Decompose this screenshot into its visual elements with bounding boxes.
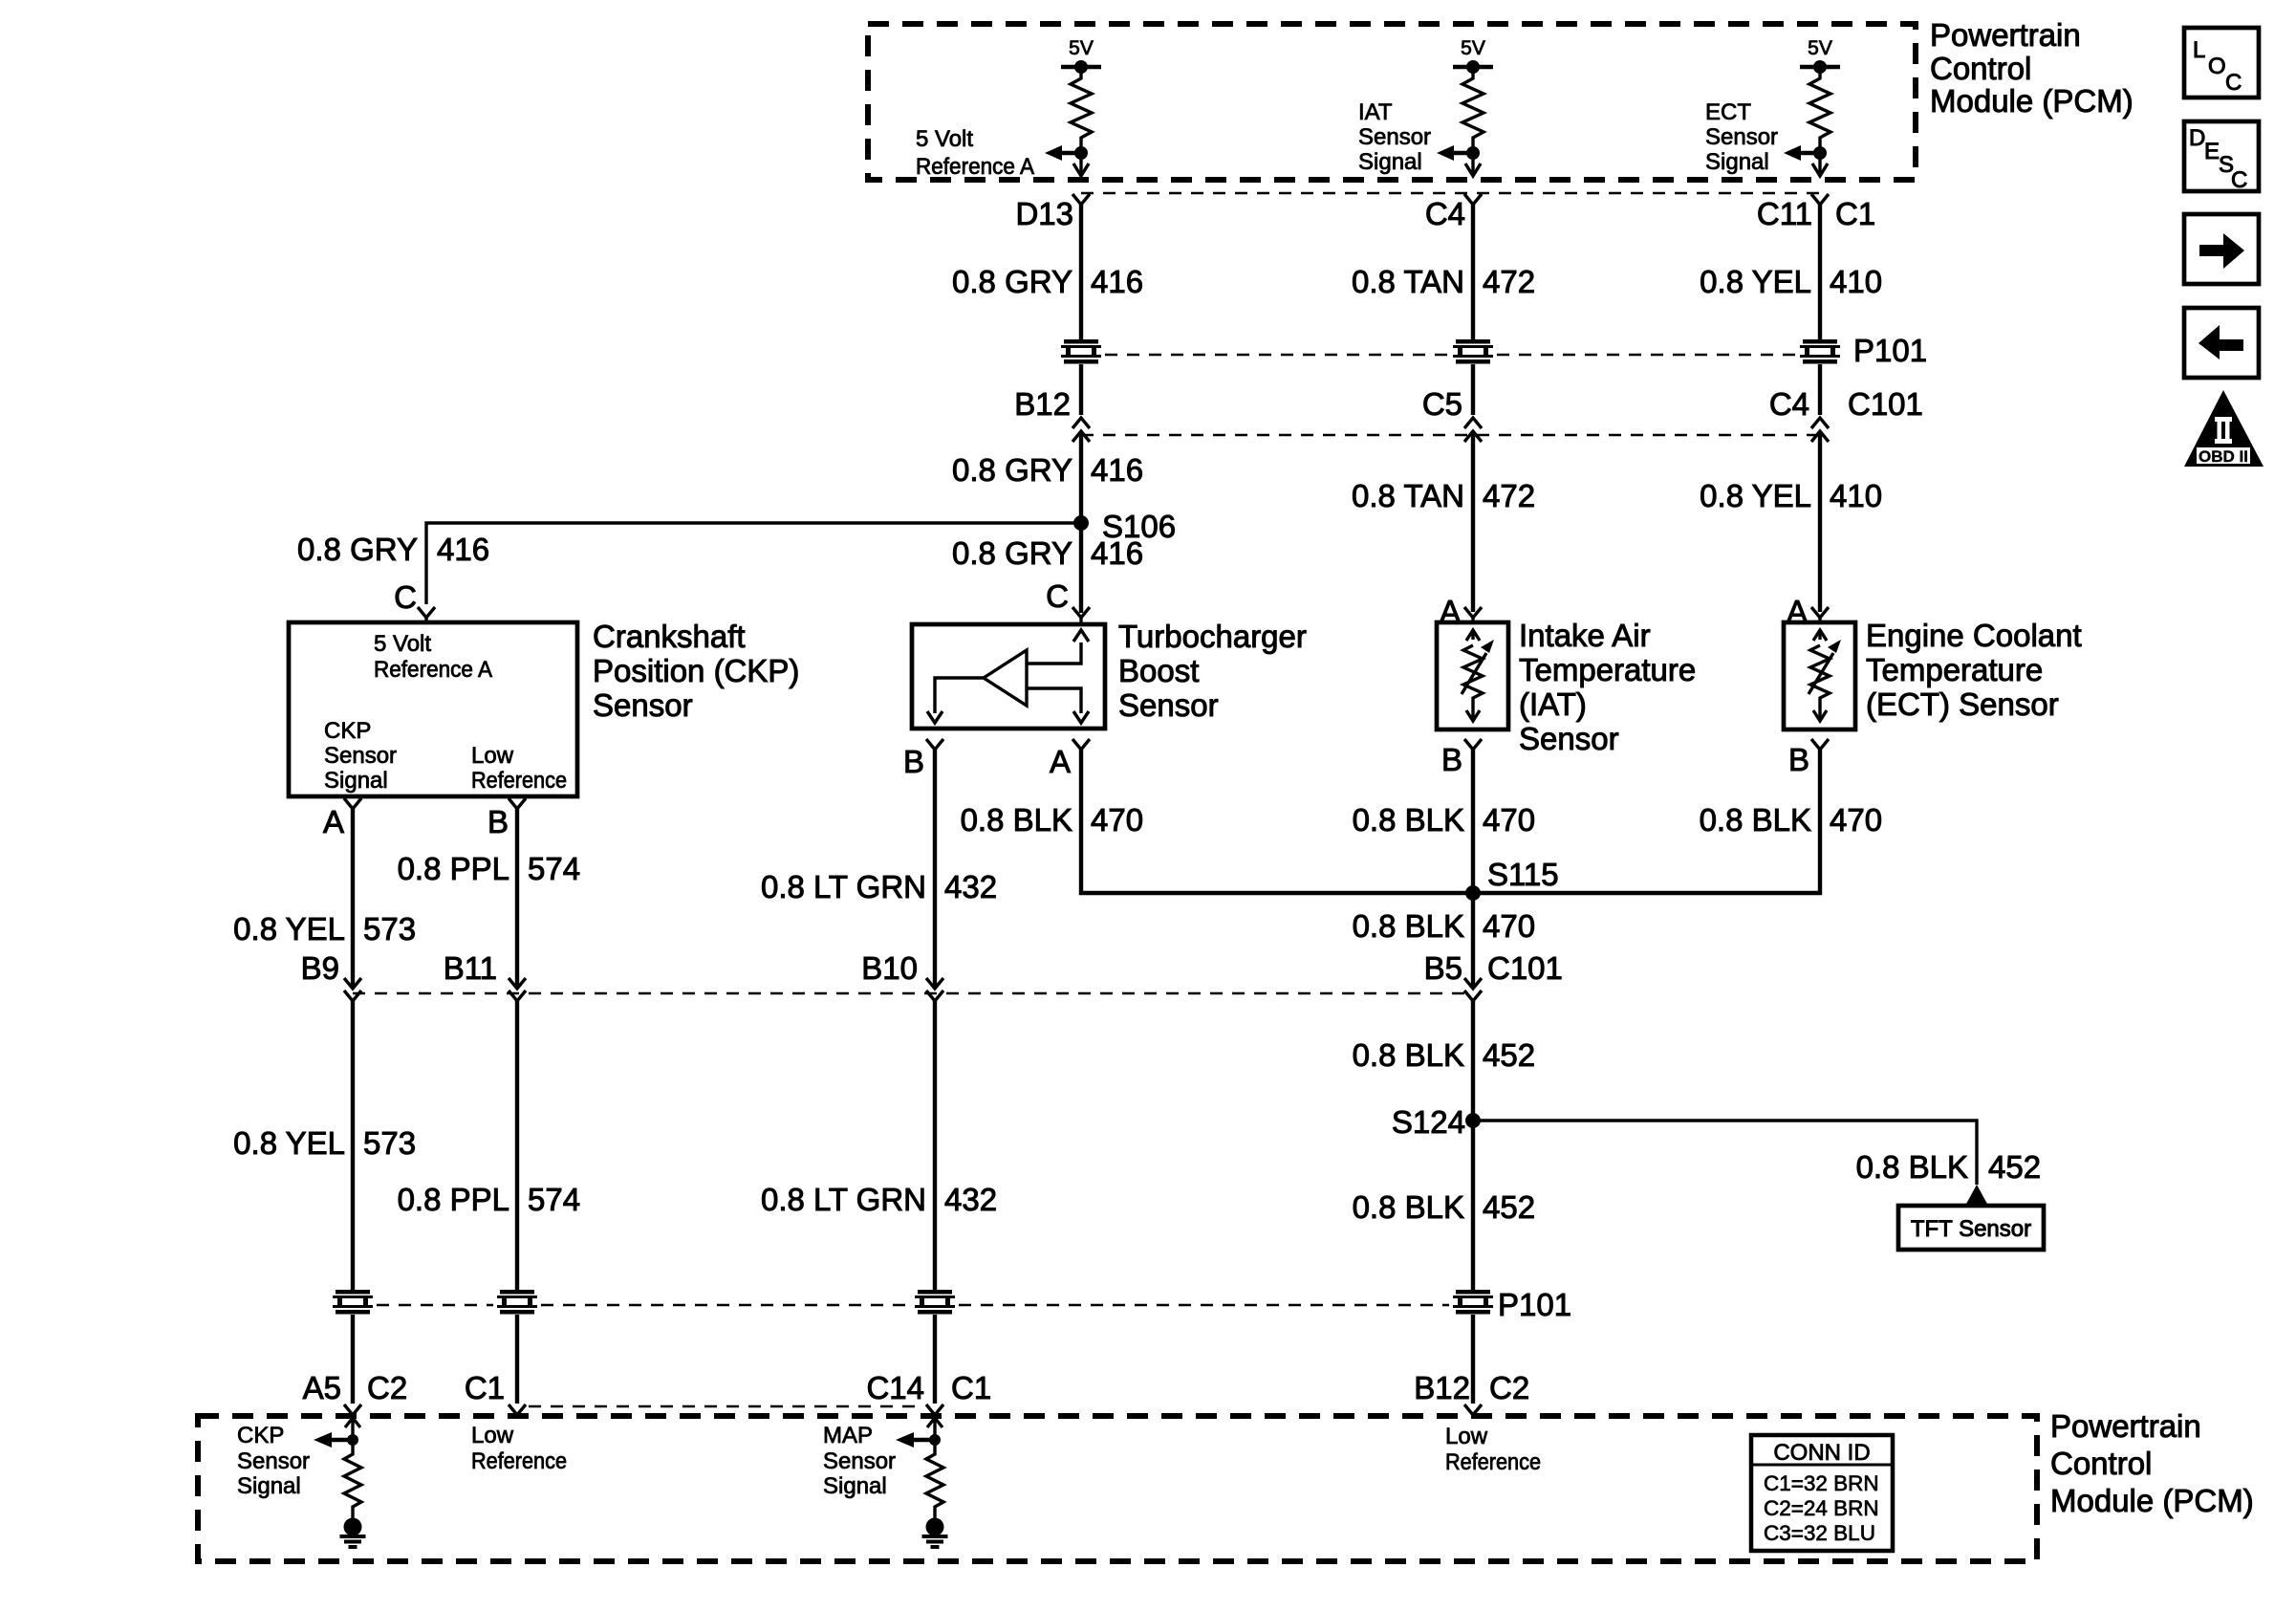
svg-text:ECT: ECT xyxy=(1705,99,1751,125)
svg-text:B: B xyxy=(1441,742,1462,777)
connector C101 chevrons (B5) xyxy=(1464,978,1482,989)
PCM module box (top, dashed) xyxy=(868,24,1916,180)
wire 0.8 GRY 416 (S106 to turbo C pin) xyxy=(1079,523,1083,613)
svg-text:S115: S115 xyxy=(1487,857,1559,892)
svg-text:B12: B12 xyxy=(1014,386,1071,422)
wire 0.8 BLK 470 (S115 to B5) xyxy=(1471,893,1475,988)
value label 0.8 BLK 452 (S124 to P101) xyxy=(1353,1189,1535,1225)
wire 0.8 LT GRN 432 (B10 to P101) xyxy=(933,1001,937,1290)
svg-text:0.8 YEL: 0.8 YEL xyxy=(1700,478,1811,513)
svg-text:C: C xyxy=(1046,578,1069,614)
svg-text:Sensor: Sensor xyxy=(1358,124,1431,150)
svg-text:C: C xyxy=(2231,167,2247,193)
svg-text:B10: B10 xyxy=(861,950,918,986)
svg-text:410: 410 xyxy=(1830,478,1882,513)
connector P101 pass-through (BLK wire) xyxy=(1453,1290,1493,1315)
svg-text:C14: C14 xyxy=(866,1370,924,1405)
svg-text:C4: C4 xyxy=(1425,196,1465,231)
wire 0.8 YEL 573 (B9 to P101) xyxy=(351,1001,355,1290)
svg-text:Engine Coolant: Engine Coolant xyxy=(1866,618,2082,653)
svg-text:A: A xyxy=(1050,744,1071,779)
value label 0.8 YEL 410 (second) xyxy=(1700,478,1882,513)
connector C101 chevrons (B11) xyxy=(509,978,526,989)
value label 0.8 GRY 416 (second) xyxy=(952,452,1143,488)
svg-text:Intake Air: Intake Air xyxy=(1519,618,1651,653)
sidebar icon: LOC box xyxy=(2184,28,2259,98)
svg-text:5 Volt: 5 Volt xyxy=(374,631,431,657)
pin chevron B (ECT sensor) xyxy=(1811,739,1829,750)
resistor R1 (PCM 5V pull-up, 5 Volt Reference A) xyxy=(1045,60,1101,176)
P101 connector dashed tie-line (lower) xyxy=(377,1304,1449,1307)
svg-text:Signal: Signal xyxy=(1705,149,1769,175)
svg-text:0.8 GRY: 0.8 GRY xyxy=(952,535,1072,571)
pin chevron C (turbo boost sensor) xyxy=(1072,607,1090,618)
svg-text:574: 574 xyxy=(528,851,580,886)
svg-text:Low: Low xyxy=(471,743,514,769)
svg-text:C1: C1 xyxy=(951,1370,991,1405)
value label 0.8 BLK 452 (B5 to S124) xyxy=(1353,1037,1535,1073)
label: ECT Sensor Signal xyxy=(1705,99,1778,175)
svg-text:470: 470 xyxy=(1091,802,1143,838)
svg-text:Signal: Signal xyxy=(823,1473,887,1499)
svg-text:C2=24 BRN: C2=24 BRN xyxy=(1764,1496,1879,1520)
value label 0.8 PPL 574 (lower) xyxy=(398,1182,580,1217)
svg-text:470: 470 xyxy=(1483,802,1535,838)
pin chevron B12 (lower) xyxy=(1464,1404,1482,1415)
wire 0.8 YEL 573 (P101 to PCM A5) xyxy=(351,1315,355,1404)
svg-text:C: C xyxy=(2225,70,2242,96)
IAT sensor box xyxy=(1437,622,1508,729)
sidebar icon: forward arrow box xyxy=(2184,214,2259,284)
sidebar icon: back arrow box xyxy=(2184,308,2259,378)
wire 0.8 TAN 472 (C4 to P101) xyxy=(1471,205,1475,339)
svg-text:0.8 BLK: 0.8 BLK xyxy=(1353,1037,1464,1073)
TFT sensor box xyxy=(1898,1206,2044,1250)
ECT sensor box xyxy=(1784,622,1855,729)
pin chevron A (ECT sensor) xyxy=(1811,607,1829,618)
svg-text:B11: B11 xyxy=(444,950,497,986)
CKP box internal label: 5 Volt Reference A xyxy=(374,631,492,683)
wire 0.8 BLK 452 (S124 to P101) xyxy=(1471,1121,1475,1290)
svg-text:Control: Control xyxy=(2050,1446,2152,1481)
svg-text:C1: C1 xyxy=(1835,196,1875,231)
svg-text:0.8 BLK: 0.8 BLK xyxy=(1353,1189,1464,1225)
svg-text:0.8 YEL: 0.8 YEL xyxy=(233,1125,345,1161)
wire 0.8 YEL 410 (P101 to C101) xyxy=(1818,364,1822,415)
svg-text:CKP: CKP xyxy=(237,1423,284,1448)
connector C101 chevrons (GRY wire) xyxy=(1072,418,1090,428)
svg-text:O: O xyxy=(2208,54,2226,79)
pin chevron C14 xyxy=(926,1404,943,1415)
CKP box internal label: Low Reference xyxy=(471,743,567,794)
pin chevron A (turbo sensor) xyxy=(1072,739,1090,750)
turbo sensor internal symbol (amplifier triangle with arrows) xyxy=(927,630,1089,723)
wire 0.8 TAN 472 (P101 to C101) xyxy=(1471,364,1475,415)
wire 0.8 TAN 472 (C101 to IAT sensor) xyxy=(1471,431,1475,612)
resistor R3 (PCM 5V pull-up, ECT) xyxy=(1784,60,1840,176)
connector P101 pass-through (TAN wire) xyxy=(1453,339,1493,364)
MAP signal node dot xyxy=(929,1434,941,1446)
connector P101 pass-through (YEL wire) xyxy=(1800,339,1840,364)
connector C101 chevrons (B10) xyxy=(926,978,943,989)
svg-text:Sensor: Sensor xyxy=(593,687,693,723)
sidebar icon: OBD II triangle xyxy=(2184,390,2264,467)
label: Powertrain Control Module (PCM) bottom xyxy=(2050,1408,2254,1518)
label: Intake Air Temperature (IAT) Sensor xyxy=(1519,618,1696,756)
svg-text:C101: C101 xyxy=(1487,950,1563,986)
pin C4 connector chevron xyxy=(1464,194,1482,205)
CKP sensor box xyxy=(289,622,577,796)
svg-text:0.8 YEL: 0.8 YEL xyxy=(233,911,345,947)
wire 0.8 GRY 416 (S106 branch to CKP sensor) xyxy=(426,523,1081,604)
connector P101 pass-through (PPL wire) xyxy=(497,1290,537,1315)
svg-text:452: 452 xyxy=(1988,1149,2041,1185)
svg-text:416: 416 xyxy=(437,532,489,567)
svg-text:C: C xyxy=(394,579,417,615)
svg-text:5 Volt: 5 Volt xyxy=(916,126,973,152)
label: CKP Sensor Signal (PCM internal) xyxy=(237,1423,310,1499)
svg-text:C11: C11 xyxy=(1757,196,1812,231)
svg-text:Powertrain: Powertrain xyxy=(2050,1408,2201,1444)
splice S115 xyxy=(1465,885,1481,901)
svg-text:Reference A: Reference A xyxy=(374,657,492,683)
value label 0.8 LT GRN 432 (lower) xyxy=(761,1182,997,1217)
svg-text:IAT: IAT xyxy=(1358,99,1393,125)
CKP signal node dot xyxy=(347,1434,358,1446)
value label 0.8 PPL 574 (upper) xyxy=(398,851,580,886)
svg-text:0.8 BLK: 0.8 BLK xyxy=(961,802,1072,838)
svg-text:E: E xyxy=(2204,139,2220,164)
svg-text:Reference: Reference xyxy=(471,1448,567,1474)
svg-text:0.8 GRY: 0.8 GRY xyxy=(952,452,1072,488)
svg-text:Reference: Reference xyxy=(1445,1449,1541,1475)
svg-text:B: B xyxy=(903,744,924,779)
wire 0.8 PPL 574 (B11 to P101) xyxy=(515,1001,519,1290)
svg-text:0.8 BLK: 0.8 BLK xyxy=(1353,802,1464,838)
svg-text:Module (PCM): Module (PCM) xyxy=(1930,83,2134,119)
MAP signal input arrowhead (up) xyxy=(927,1418,942,1440)
ground (CKP signal termination) xyxy=(340,1518,366,1548)
svg-text:Low: Low xyxy=(1445,1424,1488,1449)
value label 0.8 YEL 573 (lower) xyxy=(233,1125,416,1161)
svg-text:Sensor: Sensor xyxy=(237,1448,310,1474)
svg-text:416: 416 xyxy=(1091,535,1143,571)
svg-text:Control: Control xyxy=(1930,51,2031,86)
svg-text:Powertrain: Powertrain xyxy=(1930,17,2081,53)
connector P101 pass-through (GRY wire) xyxy=(1061,339,1101,364)
svg-text:452: 452 xyxy=(1483,1189,1535,1225)
svg-text:573: 573 xyxy=(363,1125,416,1161)
wire 0.8 YEL 573 (CKP A to B9) xyxy=(351,809,355,988)
svg-text:Reference: Reference xyxy=(471,768,567,794)
pin chevron B (IAT sensor) xyxy=(1464,739,1482,750)
wire 0.8 YEL 410 (C11 to P101) xyxy=(1818,205,1822,339)
label: Powertrain Control Module (PCM) top xyxy=(1930,17,2134,119)
value label 0.8 BLK 470 (below S115) xyxy=(1353,908,1535,944)
svg-text:Reference A: Reference A xyxy=(916,154,1034,180)
MAP signal arrow (left) xyxy=(914,1438,935,1442)
wire stub C pin into turbo box xyxy=(1079,618,1082,624)
svg-text:C1: C1 xyxy=(465,1370,505,1405)
wire 0.8 BLK 452 (P101 to PCM B12) xyxy=(1471,1315,1475,1404)
svg-text:Sensor: Sensor xyxy=(1519,721,1619,756)
wire 0.8 GRY 416 (C101 to S106) xyxy=(1079,431,1083,524)
label: IAT Sensor Signal xyxy=(1358,99,1431,175)
svg-text:0.8 TAN: 0.8 TAN xyxy=(1352,264,1464,299)
label: Low Reference (right) xyxy=(1445,1424,1541,1475)
svg-text:OBD II: OBD II xyxy=(2199,447,2248,466)
svg-text:A5: A5 xyxy=(303,1370,341,1405)
wire 0.8 BLK 452 (B5 to S124) xyxy=(1471,1001,1475,1121)
wire 0.8 BLK 470 (ECT B to S115) xyxy=(1473,750,1820,893)
PCM module box (bottom, dashed) xyxy=(198,1416,2037,1561)
IAT thermistor symbol xyxy=(1462,630,1494,721)
svg-text:416: 416 xyxy=(1091,264,1143,299)
ECT thermistor symbol xyxy=(1809,630,1841,721)
svg-text:Sensor: Sensor xyxy=(1705,124,1778,150)
svg-text:C101: C101 xyxy=(1848,386,1923,422)
connector C101 chevrons (YEL wire) xyxy=(1811,418,1829,428)
svg-text:470: 470 xyxy=(1483,908,1535,944)
svg-text:B5: B5 xyxy=(1424,950,1462,986)
svg-text:B12: B12 xyxy=(1414,1370,1470,1405)
svg-text:P101: P101 xyxy=(1498,1287,1571,1322)
wire 0.8 LT GRN 432 (turbo B to B10) xyxy=(933,750,937,988)
svg-text:0.8 GRY: 0.8 GRY xyxy=(952,264,1072,299)
pin chevron B (CKP sensor) xyxy=(509,798,526,809)
svg-text:5V: 5V xyxy=(1461,37,1485,59)
svg-text:Sensor: Sensor xyxy=(1118,687,1219,723)
svg-text:Sensor: Sensor xyxy=(823,1448,896,1474)
svg-text:574: 574 xyxy=(528,1182,580,1217)
TFT sensor terminal triangle xyxy=(1965,1185,1988,1206)
wire 0.8 YEL 410 (C101 to ECT sensor) xyxy=(1818,431,1822,612)
svg-text:C3=32 BLU: C3=32 BLU xyxy=(1764,1521,1875,1545)
label: Crankshaft Position (CKP) Sensor xyxy=(593,619,799,723)
svg-text:0.8 PPL: 0.8 PPL xyxy=(398,851,509,886)
value label 0.8 GRY 416 xyxy=(952,264,1143,299)
svg-text:470: 470 xyxy=(1830,802,1882,838)
svg-text:573: 573 xyxy=(363,911,416,947)
svg-text:CKP: CKP xyxy=(324,718,371,744)
CONN ID table box xyxy=(1751,1435,1893,1551)
turbocharger boost sensor box xyxy=(912,624,1105,729)
pin chevron A (CKP sensor) xyxy=(344,798,361,809)
value label 0.8 LT GRN 432 (upper) xyxy=(761,869,997,904)
value label 0.8 BLK 470 (IAT branch) xyxy=(1353,802,1535,838)
svg-text:432: 432 xyxy=(944,869,997,904)
svg-text:TFT Sensor: TFT Sensor xyxy=(1911,1216,2031,1242)
pin chevron (PPL wire) xyxy=(509,1404,526,1415)
splice S106 xyxy=(1073,515,1089,531)
pin chevron C (CKP sensor) xyxy=(418,607,435,618)
wire 0.8 PPL 574 (CKP B to B11) xyxy=(515,809,519,988)
wire 0.8 BLK 470 (IAT B to S115) xyxy=(1471,750,1475,893)
wire 0.8 PPL 574 (P101 to PCM C1) xyxy=(515,1315,519,1404)
svg-text:CONN ID: CONN ID xyxy=(1773,1440,1870,1466)
value label 0.8 GRY 416 (below S106) xyxy=(952,535,1143,571)
svg-text:472: 472 xyxy=(1483,264,1535,299)
label: Engine Coolant Temperature (ECT) Sensor xyxy=(1866,618,2082,722)
label: MAP Sensor Signal (PCM internal) xyxy=(823,1423,896,1499)
svg-text:S124: S124 xyxy=(1392,1104,1465,1140)
svg-text:Signal: Signal xyxy=(324,768,388,794)
svg-text:Crankshaft: Crankshaft xyxy=(593,619,746,654)
pin chevron A (IAT sensor) xyxy=(1464,607,1482,618)
P101 connector dashed tie-line xyxy=(1105,354,1796,357)
wire stub C pin into CKP box xyxy=(424,618,427,622)
svg-text:Signal: Signal xyxy=(237,1473,301,1499)
pin chevron B (turbo sensor) xyxy=(926,739,943,750)
wire 0.8 BLK 452 (S124 to TFT sensor) xyxy=(1473,1121,1977,1185)
label: 5 Volt Reference A xyxy=(916,126,1034,180)
svg-text:C1=32 BRN: C1=32 BRN xyxy=(1764,1471,1879,1495)
resistor (PCM internal, MAP signal) xyxy=(926,1440,943,1518)
svg-text:B: B xyxy=(487,804,509,839)
svg-text:Temperature: Temperature xyxy=(1519,652,1696,687)
svg-text:0.8 TAN: 0.8 TAN xyxy=(1352,478,1464,513)
svg-text:Turbocharger: Turbocharger xyxy=(1118,619,1307,654)
svg-text:C5: C5 xyxy=(1422,386,1462,422)
value label 0.8 GRY 416 (CKP branch) xyxy=(297,532,489,567)
svg-text:0.8 BLK: 0.8 BLK xyxy=(1353,908,1464,944)
svg-text:0.8 PPL: 0.8 PPL xyxy=(398,1182,509,1217)
connector P101 pass-through (YEL wire) xyxy=(333,1290,373,1315)
svg-text:0.8 LT GRN: 0.8 LT GRN xyxy=(761,869,926,904)
svg-text:Signal: Signal xyxy=(1358,149,1422,175)
svg-text:452: 452 xyxy=(1483,1037,1535,1073)
value label 0.8 YEL 410 xyxy=(1700,264,1882,299)
wire 0.8 GRY 416 (P101 to C101) xyxy=(1079,364,1083,415)
value label 0.8 BLK 470 (ECT branch) xyxy=(1700,802,1882,838)
svg-text:MAP: MAP xyxy=(823,1423,873,1448)
CKP box internal label: CKP Sensor Signal xyxy=(324,718,397,794)
svg-text:0.8 BLK: 0.8 BLK xyxy=(1700,802,1811,838)
svg-text:0.8 GRY: 0.8 GRY xyxy=(297,532,418,567)
svg-text:D13: D13 xyxy=(1015,196,1073,231)
wire 0.8 BLK 470 (turbo A to S115) xyxy=(1081,750,1473,893)
svg-text:B9: B9 xyxy=(301,950,339,986)
svg-text:Low: Low xyxy=(471,1423,514,1448)
svg-text:0.8 BLK: 0.8 BLK xyxy=(1856,1149,1968,1185)
pin C11 connector chevron xyxy=(1811,194,1829,205)
svg-text:B: B xyxy=(1788,742,1809,777)
svg-text:472: 472 xyxy=(1483,478,1535,513)
svg-text:0.8 LT GRN: 0.8 LT GRN xyxy=(761,1182,926,1217)
value label 0.8 YEL 573 (upper) xyxy=(233,911,416,947)
svg-text:A: A xyxy=(323,804,344,839)
connector C101 boundary (dashed) xyxy=(1081,434,1820,437)
sidebar icon: DESC box xyxy=(2184,121,2259,193)
value label 0.8 TAN 472 (second) xyxy=(1352,478,1535,513)
connector C101 boundary lower (dashed) xyxy=(353,992,1473,995)
pin D13 connector chevron xyxy=(1072,194,1090,205)
connector C101 chevrons (TAN wire) xyxy=(1464,418,1482,428)
CKP signal input arrowhead (up) xyxy=(345,1418,360,1440)
CONN ID table header divider xyxy=(1753,1464,1891,1467)
wire 0.8 GRY 416 (D13 to P101) xyxy=(1079,205,1083,339)
svg-text:C4: C4 xyxy=(1769,386,1809,422)
svg-text:5V: 5V xyxy=(1069,37,1094,59)
label: Turbocharger Boost Sensor xyxy=(1118,619,1307,723)
svg-text:410: 410 xyxy=(1830,264,1882,299)
svg-text:0.8 YEL: 0.8 YEL xyxy=(1700,264,1811,299)
PCM connector C1/C2 boundary (dashed) xyxy=(529,1405,923,1408)
wire 0.8 LT GRN 432 (P101 to PCM C14) xyxy=(933,1315,937,1404)
svg-text:P101: P101 xyxy=(1853,333,1927,368)
resistor R2 (PCM 5V pull-up, IAT) xyxy=(1437,60,1493,176)
wire stub A pin into IAT box xyxy=(1471,618,1474,622)
connector C101 chevrons (B9) xyxy=(344,978,361,989)
svg-text:(ECT) Sensor: (ECT) Sensor xyxy=(1866,686,2059,722)
svg-text:Boost: Boost xyxy=(1118,653,1199,688)
value label 0.8 BLK 452 (TFT branch) xyxy=(1856,1149,2041,1185)
svg-text:Position (CKP): Position (CKP) xyxy=(593,653,799,688)
splice S124 xyxy=(1465,1113,1481,1128)
value label 0.8 BLK 470 (turbo branch) xyxy=(961,802,1143,838)
svg-text:(IAT): (IAT) xyxy=(1519,686,1587,722)
pin chevron A5 xyxy=(344,1404,361,1415)
svg-text:416: 416 xyxy=(1091,452,1143,488)
svg-text:Module (PCM): Module (PCM) xyxy=(2050,1483,2254,1518)
svg-text:Temperature: Temperature xyxy=(1866,652,2043,687)
value label 0.8 TAN 472 xyxy=(1352,264,1535,299)
svg-text:D: D xyxy=(2189,125,2205,151)
svg-text:Sensor: Sensor xyxy=(324,743,397,769)
ground (MAP signal termination) xyxy=(922,1518,948,1548)
svg-text:5V: 5V xyxy=(1808,37,1832,59)
PCM connector C1 boundary (dashed) xyxy=(1081,192,1820,195)
connector P101 pass-through (LT GRN wire) xyxy=(915,1290,955,1315)
CKP signal arrow (left) xyxy=(332,1438,353,1442)
svg-text:432: 432 xyxy=(944,1182,997,1217)
svg-text:C2: C2 xyxy=(367,1370,407,1405)
svg-text:C2: C2 xyxy=(1489,1370,1529,1405)
wire stub A pin into ECT box xyxy=(1818,618,1821,622)
svg-text:L: L xyxy=(2193,37,2205,63)
label: Low Reference (left) xyxy=(471,1423,567,1474)
resistor (PCM internal, CKP signal) xyxy=(344,1440,361,1518)
